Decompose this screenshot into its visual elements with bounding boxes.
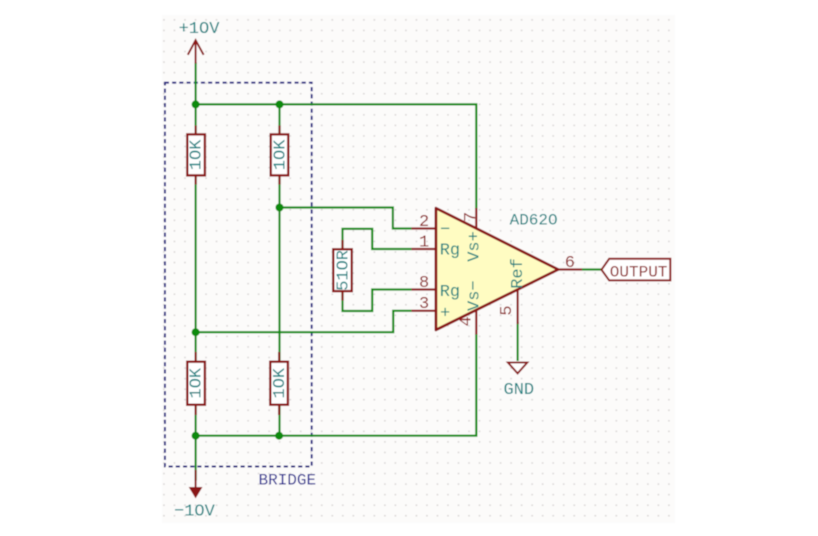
resistor R1 10K bbox=[187, 126, 206, 185]
junction at left rail / pin3 tap bbox=[192, 328, 200, 336]
resistor R2 10K bbox=[271, 126, 291, 185]
svg-text:Rg: Rg bbox=[440, 242, 460, 261]
hierarchical label OUTPUT bbox=[602, 259, 671, 281]
power symbol +10V bbox=[188, 40, 204, 63]
svg-text:+1OV: +1OV bbox=[179, 20, 221, 39]
svg-text:4: 4 bbox=[458, 316, 477, 326]
wire: 510R bottom to pin 8 bbox=[343, 290, 412, 312]
svg-text:+: + bbox=[440, 305, 450, 324]
resistor R3 10K bbox=[187, 352, 206, 415]
svg-text:−1OV: −1OV bbox=[174, 503, 216, 522]
svg-text:1OK: 1OK bbox=[271, 139, 290, 170]
svg-text:6: 6 bbox=[565, 254, 575, 273]
svg-text:GND: GND bbox=[504, 381, 535, 400]
junction at top rail / R2 bbox=[276, 100, 284, 108]
svg-text:8: 8 bbox=[419, 274, 429, 293]
resistor R5 510R bbox=[333, 240, 353, 301]
pin 4 stub bbox=[475, 310, 477, 334]
svg-text:OUTPUT: OUTPUT bbox=[610, 264, 668, 282]
pin 6 stub bbox=[558, 268, 582, 270]
svg-text:−: − bbox=[440, 221, 450, 240]
svg-text:Rg: Rg bbox=[440, 283, 460, 302]
svg-text:3: 3 bbox=[419, 295, 429, 314]
svg-text:5: 5 bbox=[498, 305, 517, 315]
junction at bottom rail / R3 bbox=[192, 432, 200, 440]
pin 8 stub bbox=[412, 288, 436, 290]
svg-text:1OK: 1OK bbox=[271, 367, 290, 398]
junction at R2 bottom / pin2 tap bbox=[276, 204, 284, 212]
svg-text:1OK: 1OK bbox=[188, 139, 207, 170]
junction at top rail / R1 bbox=[192, 100, 200, 108]
wire: pin 4 down and bottom rail bbox=[196, 334, 477, 436]
junction at bottom rail / R4 bbox=[275, 432, 283, 440]
pin 3 stub bbox=[412, 310, 436, 312]
wire: left vertical rail (+10V feed down through R1, R3 to bottom rail) bbox=[195, 63, 197, 441]
svg-text:AD62O: AD62O bbox=[510, 212, 558, 230]
svg-text:51OR: 51OR bbox=[334, 250, 353, 291]
resistor R4 10K bbox=[270, 352, 290, 415]
pin 7 stub bbox=[475, 208, 477, 228]
wire: junction row to pin 2 bbox=[280, 208, 412, 229]
svg-text:7: 7 bbox=[462, 212, 481, 222]
wire: pin 5 Ref to GND bbox=[516, 322, 518, 361]
op-amp U1 outline redraw bbox=[436, 208, 558, 330]
wire: -10V feed bbox=[195, 436, 197, 481]
power symbol -10V bbox=[195, 470, 197, 487]
wire: pin 6 to OUTPUT label bbox=[582, 268, 602, 270]
svg-text:Ref: Ref bbox=[509, 258, 528, 289]
bridge outline (dashed annotation box) bbox=[165, 83, 312, 467]
pin 2 stub bbox=[412, 227, 436, 229]
svg-text:BRIDGE: BRIDGE bbox=[259, 472, 317, 490]
svg-text:1OK: 1OK bbox=[188, 367, 207, 398]
pin 1 stub bbox=[412, 248, 436, 250]
wire: top rail down to pin 7 bbox=[196, 104, 477, 209]
pin 5 stub bbox=[516, 290, 518, 325]
wire: middle vertical (R2 to R4) bbox=[278, 104, 280, 435]
wire: left tap to pin 3 bbox=[196, 311, 412, 332]
wire: 510R top to pin 1 bbox=[343, 229, 412, 249]
svg-text:2: 2 bbox=[419, 213, 429, 232]
svg-text:Vs+: Vs+ bbox=[465, 231, 484, 262]
ground symbol GND bbox=[508, 363, 527, 374]
svg-text:Vs−: Vs− bbox=[465, 280, 484, 311]
op-amp U1 AD620 body bbox=[436, 208, 558, 330]
svg-text:1: 1 bbox=[419, 233, 429, 252]
